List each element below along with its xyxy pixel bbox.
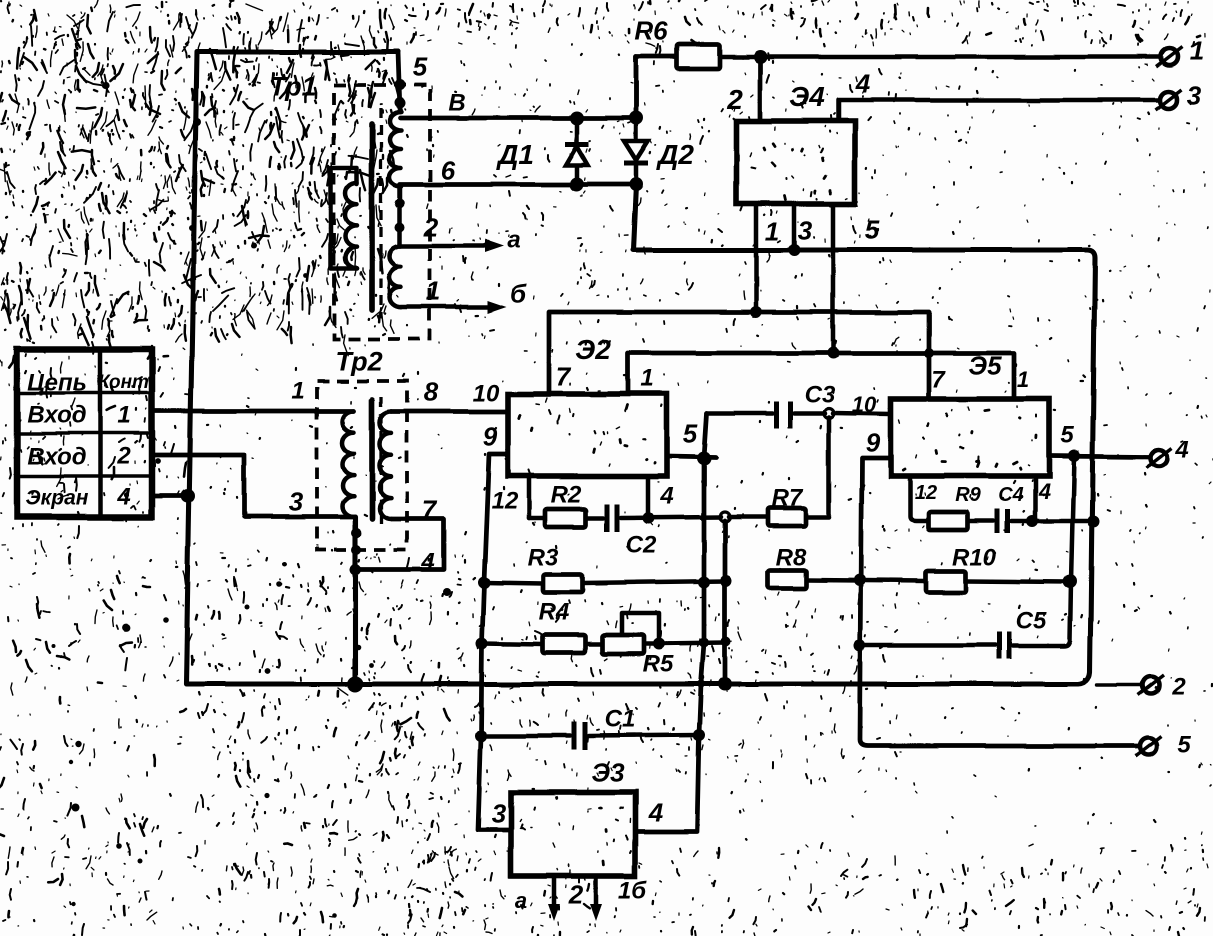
svg-text:2: 2 <box>568 879 584 909</box>
svg-text:1: 1 <box>640 365 653 392</box>
svg-text:10: 10 <box>852 392 877 417</box>
svg-text:3: 3 <box>798 215 813 245</box>
svg-text:4: 4 <box>648 797 664 827</box>
svg-text:1: 1 <box>117 402 130 429</box>
svg-text:5: 5 <box>1060 422 1074 449</box>
svg-text:Д1: Д1 <box>496 139 534 170</box>
svg-text:Цепь: Цепь <box>27 370 87 397</box>
svg-text:2: 2 <box>116 443 131 470</box>
svg-text:R5: R5 <box>643 651 674 678</box>
svg-text:6: 6 <box>441 155 456 185</box>
svg-text:1: 1 <box>291 378 304 405</box>
svg-text:Тр1: Тр1 <box>269 72 316 102</box>
svg-text:4: 4 <box>420 549 434 576</box>
svg-text:Конт.: Конт. <box>98 372 154 393</box>
svg-text:2: 2 <box>1171 674 1186 701</box>
svg-text:Вход: Вход <box>27 402 86 429</box>
svg-text:R6: R6 <box>634 15 668 45</box>
svg-text:4: 4 <box>1174 437 1188 464</box>
svg-text:а: а <box>507 227 520 254</box>
svg-text:4: 4 <box>116 484 130 511</box>
svg-text:8: 8 <box>424 376 439 406</box>
svg-text:7: 7 <box>422 494 438 524</box>
svg-text:С3: С3 <box>805 382 836 409</box>
svg-text:4: 4 <box>855 68 871 98</box>
svg-text:Э5: Э5 <box>968 350 1002 380</box>
svg-text:R8: R8 <box>776 545 807 572</box>
svg-text:9: 9 <box>866 427 881 457</box>
svg-text:R7: R7 <box>772 485 804 512</box>
svg-text:4: 4 <box>1038 479 1051 504</box>
svg-text:5: 5 <box>1177 732 1191 759</box>
svg-text:5: 5 <box>413 51 428 81</box>
svg-text:2: 2 <box>423 212 439 242</box>
svg-text:В: В <box>448 90 465 117</box>
svg-text:1: 1 <box>426 275 440 305</box>
svg-text:3: 3 <box>492 798 507 828</box>
svg-text:Э2: Э2 <box>575 334 611 365</box>
svg-text:Экран: Экран <box>26 487 89 510</box>
svg-text:Э3: Э3 <box>591 757 625 787</box>
svg-text:1: 1 <box>765 216 779 246</box>
svg-text:3: 3 <box>289 486 304 516</box>
svg-text:Тр2: Тр2 <box>335 347 382 377</box>
svg-text:R9: R9 <box>955 484 981 506</box>
svg-text:12: 12 <box>492 488 519 515</box>
svg-text:5: 5 <box>865 214 880 244</box>
svg-text:C1: C1 <box>605 706 636 733</box>
svg-text:Д2: Д2 <box>656 139 694 170</box>
svg-text:C2: C2 <box>626 532 657 559</box>
svg-text:10: 10 <box>473 381 500 408</box>
svg-text:R2: R2 <box>551 482 582 509</box>
svg-text:2: 2 <box>726 84 743 115</box>
svg-text:7: 7 <box>931 367 946 394</box>
svg-text:R4: R4 <box>539 599 570 626</box>
svg-text:1: 1 <box>1017 367 1029 392</box>
svg-text:4: 4 <box>659 483 673 510</box>
svg-text:C5: C5 <box>1016 608 1047 635</box>
svg-text:5: 5 <box>683 418 698 448</box>
svg-text:12: 12 <box>915 482 937 504</box>
svg-text:б: б <box>510 278 527 308</box>
svg-text:3: 3 <box>1187 80 1202 110</box>
svg-text:Э4: Э4 <box>789 81 825 112</box>
svg-text:1: 1 <box>1190 35 1204 65</box>
svg-text:1б: 1б <box>618 878 647 905</box>
svg-text:R10: R10 <box>952 545 997 572</box>
svg-text:а: а <box>515 888 527 913</box>
svg-text:7: 7 <box>556 361 572 391</box>
svg-text:R3: R3 <box>528 545 559 572</box>
svg-text:Вход: Вход <box>27 444 86 471</box>
svg-text:9: 9 <box>483 421 498 451</box>
svg-text:C4: C4 <box>998 484 1024 506</box>
